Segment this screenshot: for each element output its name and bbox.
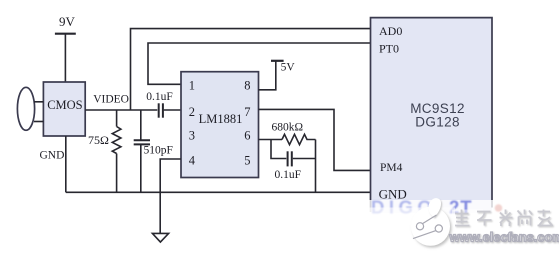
wire video line (85, 109, 181, 111)
wire CMOS ground lead (65, 136, 67, 192)
svg-text:VIDEO: VIDEO (93, 93, 129, 105)
ground rail wire (66, 191, 371, 193)
svg-text:2: 2 (189, 105, 195, 119)
ground symbol (152, 233, 168, 242)
MCU MC9S12DG128 (371, 18, 493, 213)
resistor 75ohm (112, 110, 121, 192)
watermark logo disc (411, 207, 450, 246)
capacitor 0.1uF series coupling (159, 103, 163, 117)
IC U1 LM1881 (181, 72, 259, 178)
wire AD0 to video node (131, 29, 371, 110)
power 5V supply bar (271, 60, 284, 62)
watermark logo inner marks (413, 215, 442, 239)
svg-text:CMOS: CMOS (47, 98, 82, 112)
svg-text:0.1uF: 0.1uF (275, 169, 302, 181)
wire pin7 to PM4 (259, 109, 371, 170)
svg-text:5V: 5V (281, 62, 296, 74)
svg-text:7: 7 (244, 105, 250, 119)
wire PT0 to pin1 (148, 43, 371, 84)
lens ellipse (17, 87, 34, 130)
wire RC to ground rail (315, 140, 317, 193)
svg-text:www.elecfans.com: www.elecfans.com (449, 230, 559, 245)
svg-text:1: 1 (189, 79, 195, 93)
wire pin4 to ground stem (160, 159, 181, 233)
svg-text:75Ω: 75Ω (88, 133, 109, 147)
svg-text:PM4: PM4 (380, 162, 403, 174)
svg-text:8: 8 (244, 79, 250, 93)
svg-text:4: 4 (189, 154, 196, 168)
capacitor 0.1uF on pin6 (271, 140, 316, 167)
svg-text:PT0: PT0 (379, 41, 399, 55)
capacitor 510pF (134, 110, 150, 192)
resistor 680kohm (282, 134, 316, 144)
svg-text:5: 5 (244, 154, 250, 168)
wire lens to CMOS top (34, 101, 43, 103)
wire pin6 to RC (259, 139, 283, 141)
wire pin8 to 5V (259, 61, 276, 90)
watermark logo leaf horn (428, 198, 441, 217)
watermark white wash over ghost (368, 208, 483, 217)
power 9V supply bar (55, 34, 76, 83)
svg-text:AD0: AD0 (379, 24, 402, 38)
svg-text:DG128: DG128 (415, 115, 460, 130)
watermark hanzi row (455, 210, 553, 227)
svg-text:510pF: 510pF (144, 145, 173, 157)
watermark blue ghost text (371, 197, 473, 218)
svg-text:0.1uF: 0.1uF (146, 91, 173, 103)
watermark white backdrop (369, 200, 559, 254)
watermark red dot (495, 204, 503, 212)
svg-text:680kΩ: 680kΩ (272, 122, 304, 134)
svg-text:GND: GND (40, 149, 65, 161)
svg-text:6: 6 (244, 128, 250, 142)
wire lens to CMOS bottom (34, 121, 43, 123)
svg-text:3: 3 (189, 128, 195, 142)
svg-text:9V: 9V (59, 14, 76, 29)
CMOS camera block (43, 82, 85, 136)
svg-text:LM1881: LM1881 (199, 112, 243, 126)
